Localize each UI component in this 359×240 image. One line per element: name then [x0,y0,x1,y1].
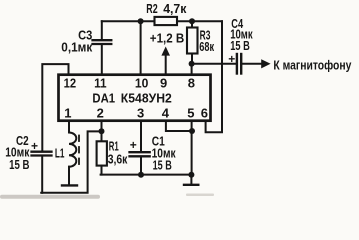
svg-text:+: + [228,52,235,66]
svg-text:3: 3 [137,105,144,120]
ground bar L1 [62,184,77,186]
svg-text:68к: 68к [199,39,214,54]
node junction pin5-bottom [188,172,194,178]
scan smudge bottom left [0,195,100,199]
wire to C4 [192,63,236,65]
output arrow head [261,59,270,68]
voltage arrow head [161,47,170,56]
svg-text:+1,2 В: +1,2 В [150,30,185,45]
svg-text:11: 11 [94,75,107,90]
voltage arrow +1,2V line [165,52,167,74]
wire right rail from R2 to pin6 loop [206,21,222,132]
node junction pin2 [99,128,105,134]
svg-text:15 В: 15 В [230,38,250,53]
resistor R3 [187,21,198,64]
svg-text:DA1: DA1 [92,91,115,106]
wire pin4 loop [166,120,192,131]
svg-text:R2: R2 [146,1,157,16]
node junction R2-R3 [189,18,195,24]
svg-text:+: + [130,138,137,152]
resistor R2 [155,17,178,25]
svg-text:1: 1 [64,105,71,120]
svg-text:К магнитофону: К магнитофону [273,58,352,73]
svg-text:4,7к: 4,7к [163,1,187,16]
svg-text:К548УН2: К548УН2 [121,91,172,106]
svg-text:5: 5 [187,105,194,120]
svg-text:3,6к: 3,6к [108,151,128,166]
capacitor C4 [237,54,262,74]
svg-text:2: 2 [97,105,104,120]
wire pin10 [140,21,142,74]
resistor R1 [97,131,107,174]
svg-text:15 В: 15 В [9,157,29,172]
wire pin5 down [191,120,193,175]
svg-text:8: 8 [188,75,195,90]
wire pin8 [191,64,193,74]
svg-text:6: 6 [201,105,208,120]
node junction R3-C4-pin8 [189,61,195,67]
node junction pin4-pin5 [189,128,195,134]
op-amp IC DA1 K548UN2 body [59,75,211,121]
ground bar right [184,184,198,186]
node junction R2-pin10 [138,18,144,24]
svg-text:10: 10 [135,75,149,90]
ground lead right [190,175,192,184]
node junction C1-bottom [138,172,144,178]
inductor L1 [69,133,79,185]
bottom middle wire [101,174,192,176]
wire top bus [102,20,222,22]
capacitor C1 [130,120,150,175]
pin12 wire to left rail [42,64,68,151]
svg-text:9: 9 [160,75,167,90]
svg-text:+: + [31,139,38,153]
capacitor C3 [93,21,112,74]
svg-text:0,1мк: 0,1мк [61,40,92,55]
svg-text:4: 4 [162,105,170,120]
capacitor C2 [32,152,52,193]
wire pin2 [101,120,103,131]
bottom left ground loop wire [41,131,101,192]
wire pin1 [68,120,70,133]
svg-text:15 В: 15 В [153,157,172,172]
svg-text:L1: L1 [55,146,65,161]
svg-text:12: 12 [64,75,77,90]
